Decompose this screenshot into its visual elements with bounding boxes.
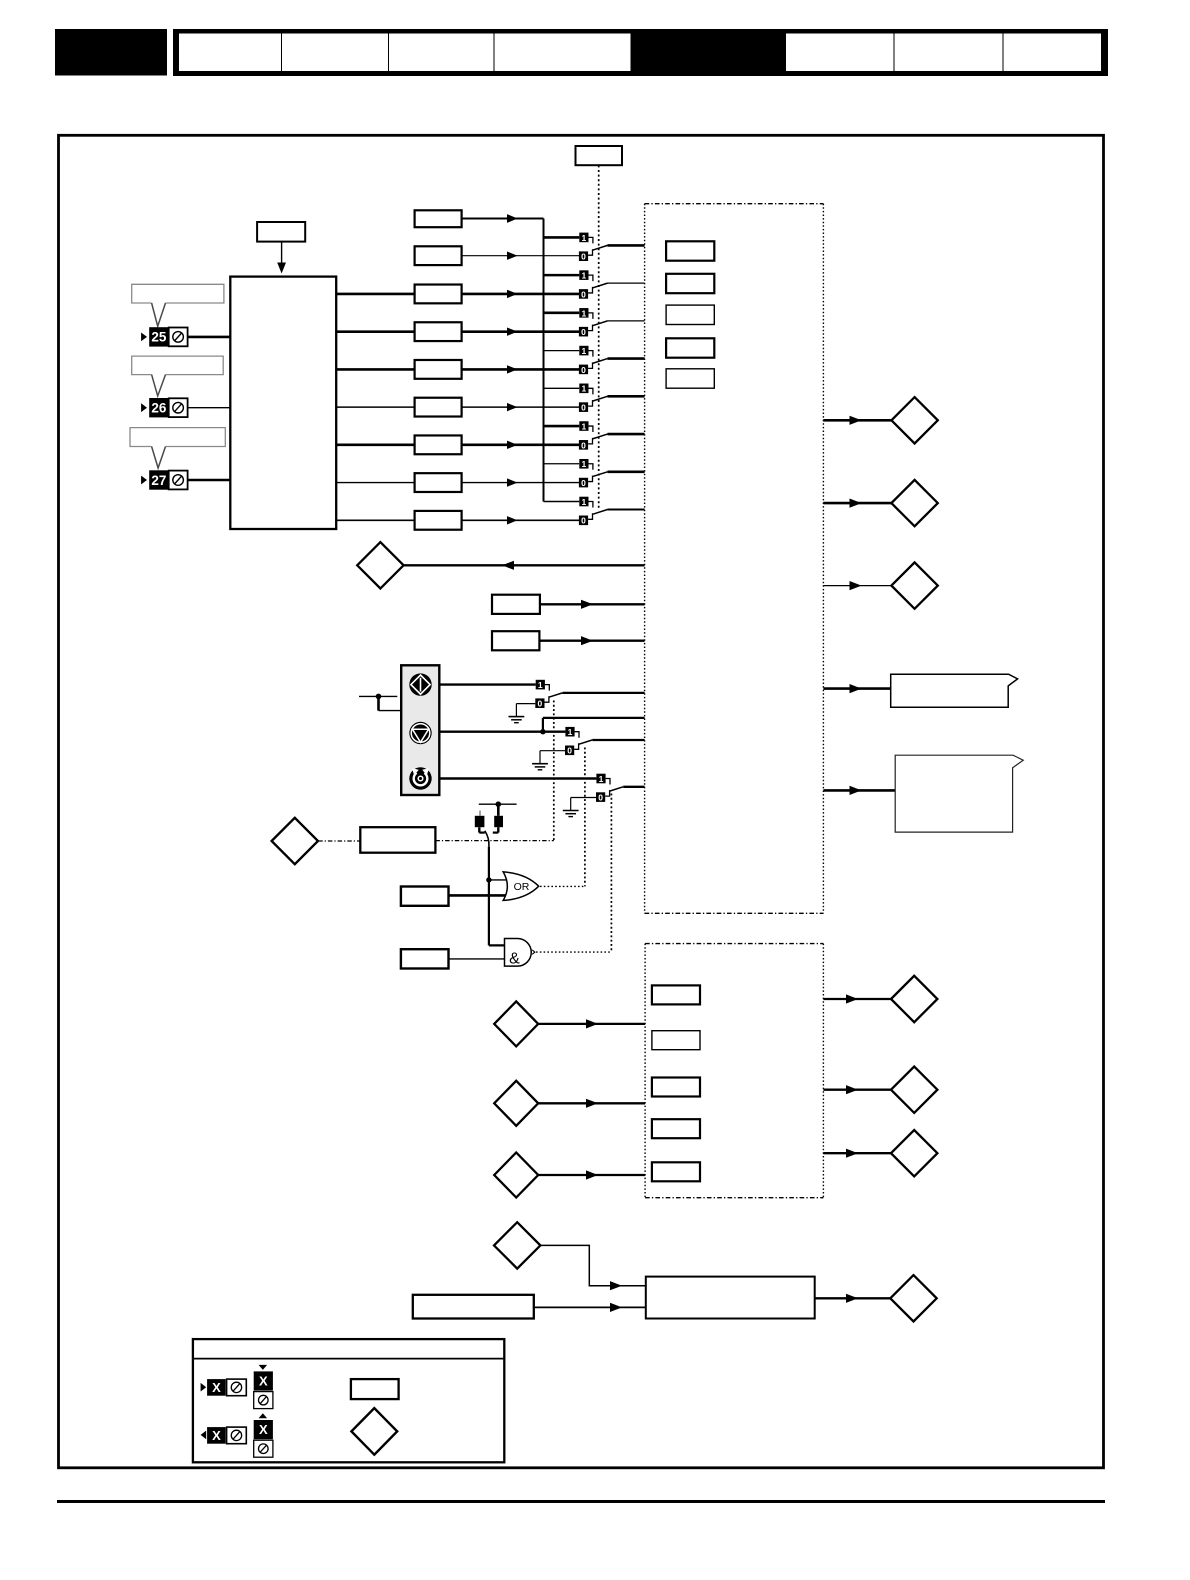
svg-text:26: 26 xyxy=(151,401,167,416)
svg-text:27: 27 xyxy=(151,473,166,488)
svg-text:1: 1 xyxy=(582,308,587,318)
svg-text:0: 0 xyxy=(581,252,586,262)
svg-text:X: X xyxy=(259,1422,268,1437)
svg-text:0: 0 xyxy=(567,746,572,756)
svg-text:1: 1 xyxy=(538,680,543,690)
svg-text:0: 0 xyxy=(581,478,586,488)
svg-text:1: 1 xyxy=(568,727,573,737)
svg-text:25: 25 xyxy=(151,330,167,345)
svg-text:1: 1 xyxy=(582,421,587,431)
svg-text:&: & xyxy=(509,951,520,968)
svg-text:0: 0 xyxy=(581,289,586,299)
svg-text:1: 1 xyxy=(582,459,587,469)
svg-text:1: 1 xyxy=(582,233,587,243)
svg-text:1: 1 xyxy=(582,271,587,281)
svg-text:0: 0 xyxy=(581,327,586,337)
svg-text:X: X xyxy=(212,1380,221,1395)
svg-text:X: X xyxy=(259,1374,268,1389)
svg-text:0: 0 xyxy=(581,403,586,413)
svg-text:1: 1 xyxy=(582,497,587,507)
svg-text:X: X xyxy=(212,1428,221,1443)
svg-text:0: 0 xyxy=(581,365,586,375)
svg-text:1: 1 xyxy=(599,774,604,784)
svg-text:0: 0 xyxy=(581,440,586,450)
svg-text:0: 0 xyxy=(598,793,603,803)
svg-text:0: 0 xyxy=(581,516,586,526)
svg-text:1: 1 xyxy=(582,346,587,356)
svg-text:OR: OR xyxy=(514,881,530,893)
svg-text:1: 1 xyxy=(582,384,587,394)
svg-text:0: 0 xyxy=(538,699,543,709)
